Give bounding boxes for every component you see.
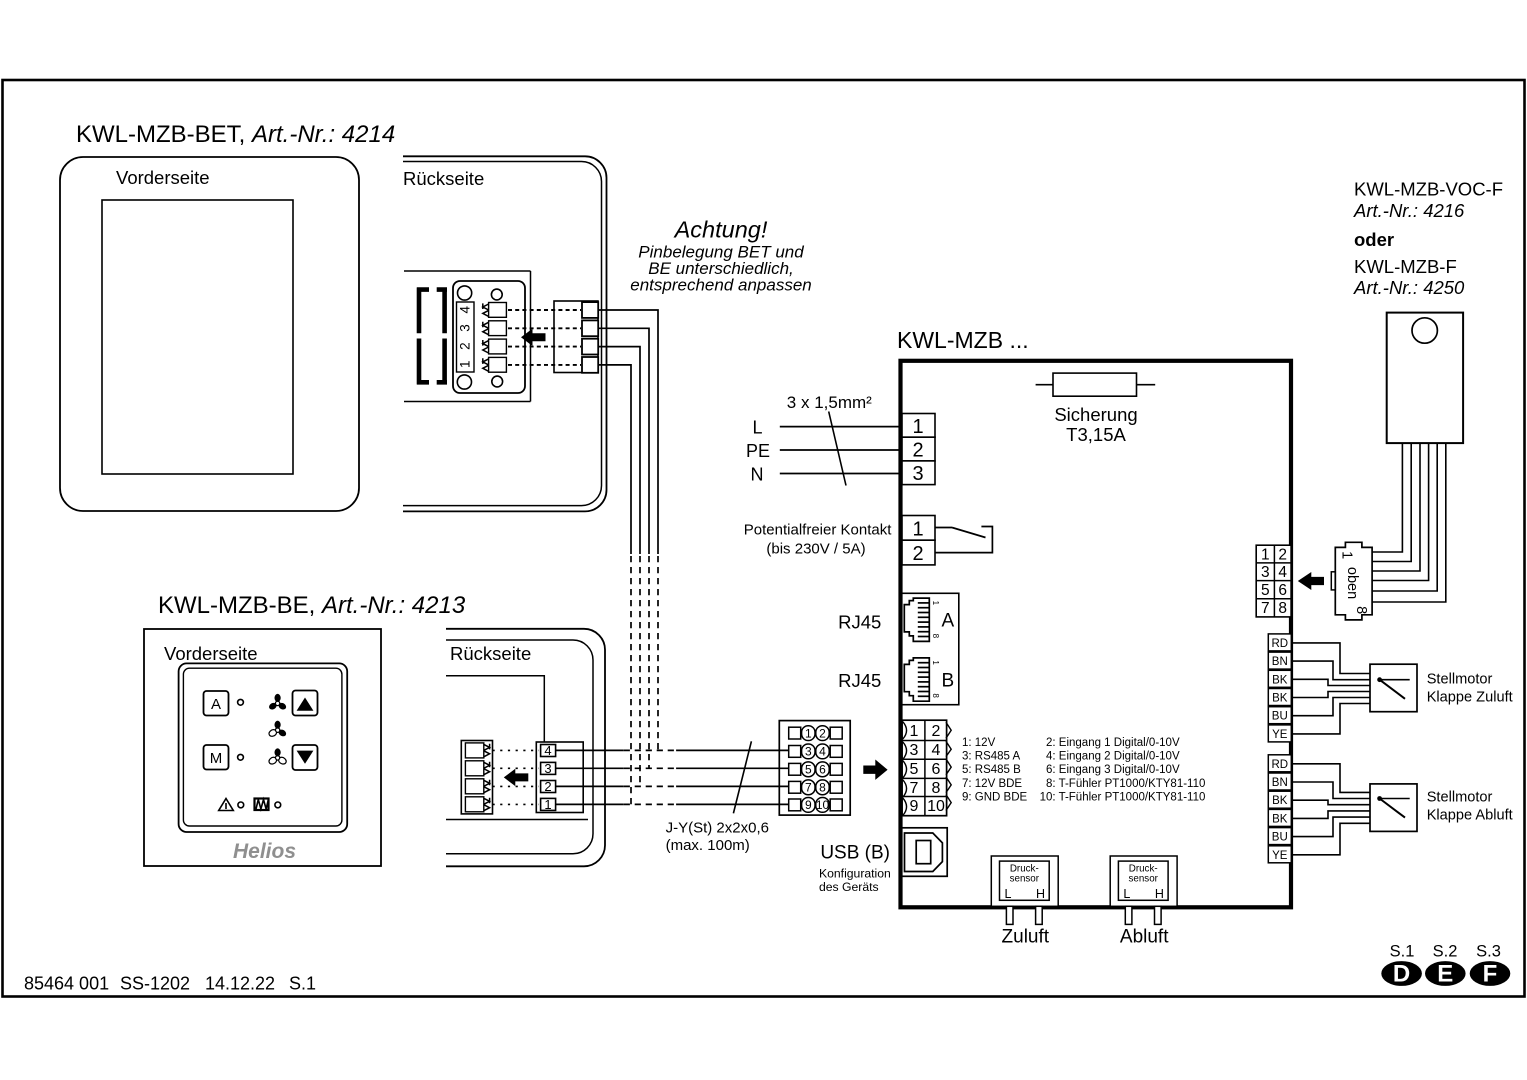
button down (293, 745, 318, 770)
svg-text:S.2: S.2 (1433, 943, 1458, 961)
svg-text:sensor: sensor (1010, 874, 1040, 885)
svg-text:T3,15A: T3,15A (1066, 424, 1126, 445)
BDE header on board (902, 720, 951, 816)
BE terminal 3 (541, 762, 556, 774)
svg-text:1: 12V: 1: 12V (962, 737, 996, 749)
svg-text:Zuluft: Zuluft (1002, 927, 1050, 948)
svg-text:2: 2 (932, 723, 941, 740)
svg-text:Rückseite: Rückseite (450, 643, 531, 664)
svg-text:2: 2 (544, 779, 551, 794)
svg-text:2: 2 (1278, 547, 1287, 564)
svg-text:L: L (752, 418, 762, 438)
svg-text:Art.-Nr.: 4216: Art.-Nr.: 4216 (1353, 200, 1465, 221)
plug latch (1331, 572, 1335, 590)
fan icon low (268, 748, 288, 765)
svg-text:Vorderseite: Vorderseite (116, 167, 210, 188)
main board outline (901, 361, 1292, 908)
svg-text:RD: RD (1271, 638, 1288, 650)
svg-text:RJ45: RJ45 (838, 670, 881, 691)
svg-text:7: 12V BDE: 7: 12V BDE (962, 778, 1022, 790)
button up (293, 691, 318, 716)
svg-text:8: T-Fühler PT1000/KTY81-110: 8: T-Fühler PT1000/KTY81-110 (1046, 778, 1205, 790)
BET mating plug body (554, 301, 598, 373)
svg-text:S.3: S.3 (1476, 943, 1501, 961)
svg-text:3: 3 (805, 745, 812, 759)
svg-text:KWL-MZB-BE, Art.-Nr.: 4213: KWL-MZB-BE, Art.-Nr.: 4213 (158, 592, 466, 619)
svg-text:(max. 100m): (max. 100m) (666, 837, 750, 854)
svg-text:Helios: Helios (233, 840, 296, 863)
svg-text:BU: BU (1272, 832, 1288, 844)
USB socket (900, 828, 947, 877)
BE panel outer frame (179, 663, 348, 832)
svg-text:Klappe Zuluft: Klappe Zuluft (1427, 690, 1513, 706)
button M (204, 745, 229, 770)
relay terminal 1 (902, 516, 935, 541)
BET terminal module body (453, 281, 525, 393)
tab F (1470, 961, 1511, 986)
svg-text:H: H (1036, 887, 1045, 901)
svg-text:Achtung!: Achtung! (673, 217, 768, 243)
LED warning (238, 802, 244, 808)
svg-text:6: 6 (932, 761, 941, 778)
cable bundle marker (733, 741, 751, 813)
svg-text:3: 3 (912, 463, 923, 485)
pressure sensor Zuluft (991, 856, 1058, 924)
relay contact symbol (935, 527, 992, 553)
svg-text:BK: BK (1272, 813, 1288, 825)
BE panel inner frame (183, 668, 342, 826)
svg-text:S.1: S.1 (289, 974, 316, 994)
svg-text:Vorderseite: Vorderseite (164, 643, 258, 664)
Achtung note (630, 217, 811, 295)
BET cable wires (solid part) (598, 310, 658, 554)
svg-text:5: 5 (910, 761, 919, 778)
BET front panel housing (60, 157, 359, 511)
dotted pin links (BE block to connector) (493, 750, 540, 804)
BE terminal 4 (541, 745, 556, 757)
wire PE (780, 449, 902, 451)
wire L (780, 426, 902, 428)
BET rear bracket right (437, 287, 447, 384)
svg-text:7: 7 (910, 780, 919, 797)
wires to actuator 1 (1291, 643, 1370, 734)
screw hole top-right (491, 289, 502, 300)
svg-text:10: 10 (927, 798, 945, 815)
svg-text:KWL-MZB-VOC-F: KWL-MZB-VOC-F (1354, 179, 1503, 200)
svg-text:10: T-Fühler PT1000/KTY81-110: 10: T-Fühler PT1000/KTY81-110 (1040, 791, 1206, 803)
svg-text:Konfiguration: Konfiguration (819, 867, 891, 881)
svg-text:1: 1 (912, 519, 923, 541)
button A (204, 691, 229, 716)
svg-text:6: Eingang 3 Digital/0-10V: 6: Eingang 3 Digital/0-10V (1046, 764, 1180, 776)
svg-text:BK: BK (1272, 693, 1288, 705)
svg-text:oben: oben (1344, 567, 1360, 599)
svg-text:BN: BN (1272, 656, 1288, 668)
svg-text:3: RS485 A: 3: RS485 A (962, 751, 1021, 763)
actuator terminals group 1 (Zuluft) (1268, 634, 1291, 742)
fan icon mid (268, 721, 288, 738)
svg-text:8: 8 (931, 634, 940, 639)
svg-text:5: 5 (1261, 582, 1270, 599)
svg-text:J-Y(St) 2x2x0,6: J-Y(St) 2x2x0,6 (666, 820, 769, 837)
svg-text:E: E (1437, 961, 1453, 988)
svg-text:1: 1 (1339, 551, 1355, 559)
svg-text:Stellmotor: Stellmotor (1427, 790, 1493, 806)
warning icon (219, 799, 234, 811)
svg-text:N: N (751, 465, 764, 485)
terminal X1.2 (902, 437, 935, 461)
BET display window (102, 200, 293, 474)
arrow plug-in BET (521, 329, 546, 346)
svg-text:8: 8 (819, 781, 826, 795)
BET cable wires (dashed part) (624, 556, 676, 804)
svg-text:YE: YE (1272, 729, 1288, 741)
svg-text:BN: BN (1272, 777, 1288, 789)
cable marker 3x1.5 (829, 412, 846, 486)
wire N (780, 473, 902, 475)
actuator M2 Abluft (1370, 784, 1417, 832)
svg-text:F: F (1483, 961, 1498, 988)
svg-text:USB (B): USB (B) (820, 843, 890, 864)
svg-text:8: 8 (1278, 600, 1287, 617)
sensor plug 1 oben 8 (1335, 542, 1372, 620)
actuator terminals group 2 (Abluft) (1268, 755, 1291, 863)
svg-text:6: 6 (1278, 582, 1287, 599)
sensor cable wires (1373, 443, 1446, 602)
RJ45 module box (901, 593, 959, 704)
BE spring terminal block (461, 741, 492, 814)
LED A (238, 699, 244, 705)
svg-text:2: 2 (819, 726, 826, 740)
svg-text:BK: BK (1272, 674, 1288, 686)
actuator M1 Zuluft (1370, 664, 1417, 712)
svg-text:KWL-MZB-BET, Art.-Nr.: 4214: KWL-MZB-BET, Art.-Nr.: 4214 (76, 121, 395, 148)
svg-text:1: 1 (931, 601, 940, 606)
BDE pinout legend (962, 737, 1205, 803)
svg-text:L: L (1005, 887, 1012, 901)
svg-text:B: B (942, 671, 955, 692)
svg-text:10: 10 (816, 798, 830, 812)
svg-text:S.1: S.1 (1390, 943, 1415, 961)
svg-text:1: 1 (912, 416, 923, 438)
LED filter (275, 802, 281, 808)
svg-text:3: 3 (1261, 564, 1270, 581)
filter icon (255, 799, 269, 811)
svg-text:4: 4 (819, 745, 826, 759)
BE rear slot cutout (446, 676, 544, 742)
BET rear housing outline (403, 156, 607, 511)
arrow plug-in sensor (1298, 572, 1324, 590)
RJ45 jack B (904, 658, 940, 701)
BE terminal 2 (541, 781, 556, 793)
label KWL-MZB-BET title (76, 121, 395, 148)
arrow plug-in BDE (863, 760, 887, 780)
svg-text:8: 8 (932, 780, 941, 797)
svg-text:PE: PE (746, 441, 770, 461)
fan icon high (268, 694, 288, 711)
terminal X1.3 (902, 461, 935, 485)
svg-text:YE: YE (1272, 850, 1288, 862)
svg-text:3: 3 (544, 761, 551, 776)
dashed pin links (BET module to plug) (508, 310, 581, 365)
svg-text:4: Eingang 2 Digital/0-10V: 4: Eingang 2 Digital/0-10V (1046, 751, 1180, 763)
tab E (1425, 961, 1466, 986)
BET rear bracket left (417, 287, 429, 384)
svg-text:85464 001: 85464 001 (24, 974, 109, 994)
svg-text:1: 1 (544, 797, 551, 812)
board socket 8-pin (1256, 545, 1291, 617)
BE terminal 1 (541, 798, 556, 810)
arrow plug-in BE (504, 769, 529, 786)
svg-text:Abluft: Abluft (1120, 927, 1169, 948)
BET pin label strip 1 2 3 4 (457, 302, 475, 372)
fuse F1 (1036, 384, 1156, 386)
BE wires to plug (556, 750, 789, 804)
relay terminal 2 (902, 540, 935, 565)
svg-text:4: 4 (1278, 564, 1287, 581)
svg-text:3 x 1,5mm²: 3 x 1,5mm² (787, 393, 872, 412)
RJ45 jack A (904, 598, 940, 641)
svg-text:8: 8 (1353, 606, 1369, 614)
plug contact squares (582, 302, 598, 373)
screw hole bottom-right (492, 376, 503, 387)
tab D (1381, 961, 1422, 986)
svg-text:Art.-Nr.: 4250: Art.-Nr.: 4250 (1353, 277, 1465, 298)
svg-text:M: M (210, 750, 223, 767)
screw hole bottom-left (457, 375, 471, 389)
svg-text:9: GND BDE: 9: GND BDE (962, 791, 1028, 803)
BE front panel housing (144, 629, 381, 866)
svg-text:4: 4 (544, 743, 551, 758)
BET spring clamp contacts (483, 303, 507, 373)
wires to actuator 2 (1291, 764, 1370, 855)
svg-text:BK: BK (1272, 795, 1288, 807)
svg-text:RD: RD (1271, 759, 1288, 771)
svg-text:7: 7 (805, 781, 812, 795)
svg-text:6: 6 (819, 763, 826, 777)
svg-text:9: 9 (805, 798, 812, 812)
svg-text:7: 7 (1261, 600, 1270, 617)
svg-text:1: 1 (910, 723, 919, 740)
pressure sensor Abluft (1110, 856, 1177, 924)
BE connector body (536, 742, 583, 813)
svg-text:Rückseite: Rückseite (403, 168, 484, 189)
svg-text:entsprechend anpassen: entsprechend anpassen (630, 276, 811, 295)
svg-text:1: 1 (805, 726, 812, 740)
svg-text:Potentialfreier Kontakt: Potentialfreier Kontakt (744, 522, 892, 539)
svg-text:A: A (942, 611, 955, 632)
svg-text:(bis 230V / 5A): (bis 230V / 5A) (766, 541, 865, 558)
svg-text:9: 9 (910, 798, 919, 815)
svg-text:oder: oder (1354, 229, 1394, 250)
svg-text:SS-1202: SS-1202 (120, 974, 190, 994)
sensor hole (1412, 318, 1437, 343)
svg-text:2: 2 (912, 543, 923, 565)
screw hole top-left (458, 286, 472, 300)
svg-text:1: 1 (1261, 547, 1270, 564)
svg-text:Stellmotor: Stellmotor (1427, 672, 1493, 688)
svg-text:D: D (1393, 961, 1410, 988)
svg-text:14.12.22: 14.12.22 (205, 974, 275, 994)
svg-text:Klappe Abluft: Klappe Abluft (1427, 808, 1513, 824)
LED M (238, 754, 244, 760)
svg-text:3: 3 (910, 742, 919, 759)
svg-text:BU: BU (1272, 711, 1288, 723)
svg-text:2: 2 (912, 440, 923, 462)
svg-text:Sicherung: Sicherung (1054, 404, 1137, 425)
svg-text:des Geräts: des Geräts (819, 880, 879, 894)
svg-text:4: 4 (932, 742, 941, 759)
svg-text:A: A (211, 696, 221, 713)
svg-text:RJ45: RJ45 (838, 612, 881, 633)
VOC sensor body (1387, 313, 1463, 444)
svg-text:KWL-MZB ...: KWL-MZB ... (897, 327, 1029, 353)
svg-text:2: Eingang 1 Digital/0-10V: 2: Eingang 1 Digital/0-10V (1046, 737, 1180, 749)
BDE cable plug (779, 721, 850, 816)
svg-text:5: RS485 B: 5: RS485 B (962, 764, 1021, 776)
BET rear slot cutout (404, 270, 531, 272)
svg-text:5: 5 (805, 763, 812, 777)
terminal X1.1 (902, 414, 935, 438)
BE rear housing outline (446, 629, 605, 867)
svg-text:KWL-MZB-F: KWL-MZB-F (1354, 256, 1457, 277)
